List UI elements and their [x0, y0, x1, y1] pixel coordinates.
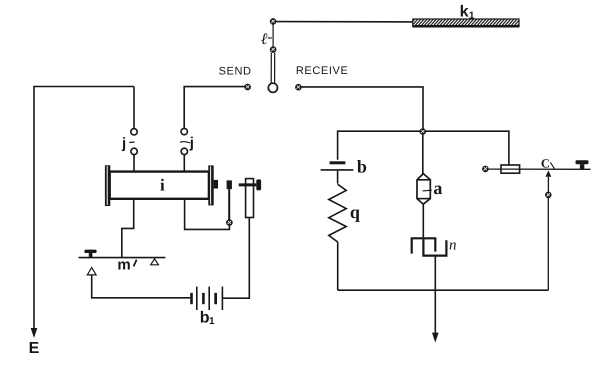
svg-text:m: m	[117, 257, 130, 274]
tick for label j (left)	[129, 141, 134, 144]
battery b1 plate 2 (thin)	[196, 287, 198, 310]
svg-text:1: 1	[469, 10, 475, 21]
key knob stem	[89, 253, 93, 258]
battery b bottom plate (thin)	[321, 169, 354, 171]
wire: wiper stem	[547, 177, 549, 192]
wire: bottom bus	[338, 289, 549, 291]
switch pendulum ball	[268, 83, 277, 92]
svg-text:E: E	[29, 340, 40, 357]
junction node screw	[420, 128, 427, 135]
adjusting screw T-bar	[239, 183, 257, 186]
svg-text:j: j	[121, 135, 126, 152]
battery b1 plate 1 (thick)	[190, 293, 193, 304]
svg-text:n: n	[449, 237, 457, 253]
terminal SEND	[244, 84, 251, 91]
svg-text:i: i	[160, 175, 165, 194]
wire: junction to detector a	[422, 135, 424, 174]
key pivot triangle	[151, 259, 159, 265]
adjusting screw tube	[246, 179, 254, 218]
aerial capacity k1 : plate with hatching	[413, 19, 519, 26]
svg-text:RECEIVE: RECEIVE	[296, 65, 349, 77]
svg-text:k: k	[460, 3, 469, 20]
tick for label j (right)	[180, 142, 190, 143]
induction coil i : left flange	[105, 165, 110, 206]
detector a capsule	[417, 174, 430, 205]
spark gap j (left) lower ball	[131, 148, 137, 154]
wire: junction to potentiometer branch	[426, 131, 509, 165]
resistance tube	[501, 165, 520, 173]
resistor q zigzag	[329, 184, 346, 242]
wire: RECEIVE terminal to junction	[301, 87, 423, 129]
end adjusting screw cap	[576, 160, 589, 164]
receiver n bottom bracket	[423, 239, 446, 255]
end adjusting screw stem	[580, 164, 584, 169]
wire: wiper to bottom bus	[547, 198, 549, 290]
svg-text:b: b	[357, 157, 367, 177]
wire: adjusting screw to battery b1 positive	[223, 218, 250, 299]
wire: receiver n to earth arrow	[434, 256, 436, 334]
svg-text:SEND: SEND	[219, 66, 252, 78]
wire: junction to local battery branch	[338, 131, 420, 160]
interrupter hammer head	[227, 180, 232, 189]
svg-text:ℓ: ℓ	[261, 31, 268, 48]
earth arrowhead	[31, 328, 38, 338]
coil output contact stud	[214, 180, 218, 189]
svg-text:C: C	[541, 156, 550, 170]
battery b top plate (thick)	[330, 161, 346, 164]
wire: node down to pivot screw	[272, 24, 274, 46]
change-over switch: top node screw	[270, 18, 277, 25]
wire: right gap to coil top	[183, 155, 185, 172]
wire: earth lead, vertical left side with top run to spark gap	[34, 87, 134, 331]
wire: detector to receiver n	[422, 204, 424, 237]
telegraph key m' lever	[79, 257, 166, 259]
terminal RECEIVE	[295, 84, 302, 91]
terminal at potentiometer	[482, 166, 489, 173]
key knob cap	[84, 250, 96, 253]
spark gap j (left) upper ball	[131, 129, 137, 135]
interrupter hammer stem	[228, 189, 230, 220]
interrupter screw contact	[226, 219, 233, 226]
wire: coil bottom right to interrupter	[185, 200, 230, 230]
wire: SEND terminal to right spark gap	[184, 87, 244, 129]
battery b1 plate 5 (thick)	[214, 293, 217, 304]
svg-text:1: 1	[209, 316, 215, 327]
tick for label l	[268, 37, 272, 39]
resistance wire c	[488, 168, 590, 170]
wire: node to aerial k1	[276, 21, 413, 23]
wire: battery b to resistor q	[337, 171, 339, 184]
wire: key contact to battery b1	[92, 275, 191, 298]
spark gap j (right) upper ball	[181, 128, 187, 134]
key contact triangle	[87, 268, 96, 275]
svg-text:a: a	[433, 178, 442, 198]
adjusting screw knob	[256, 179, 261, 190]
earth arrowhead (right)	[432, 333, 439, 343]
induction coil i : right flange	[208, 165, 213, 205]
switch pivot screw	[270, 46, 277, 53]
receiver n top bracket	[412, 238, 436, 253]
wire: earth line down to left spark gap	[133, 87, 135, 129]
battery b1 plate 3 (thick)	[202, 293, 205, 304]
battery b1 plate 4 (thin)	[208, 287, 210, 310]
wire: coil bottom left to key	[122, 200, 134, 257]
tick for label a	[423, 189, 432, 192]
wire: resistor to bottom bus	[337, 242, 339, 290]
tick for label c	[550, 162, 554, 169]
spark gap j (right) lower ball	[181, 148, 187, 154]
wiper terminal screw	[545, 192, 552, 199]
wire: left gap to coil top	[133, 155, 135, 172]
switch pendulum rod	[270, 53, 272, 84]
wiper arrowhead	[546, 170, 552, 176]
battery b1 plate 6 (thin)	[221, 287, 223, 310]
svg-text:q: q	[350, 202, 360, 222]
induction coil i : body	[110, 171, 208, 199]
